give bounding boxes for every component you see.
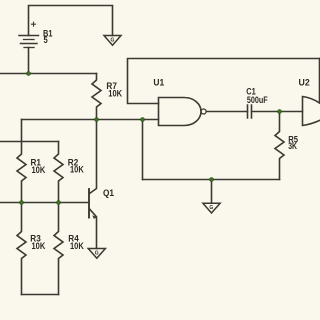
svg-text:G: G: [209, 205, 213, 211]
svg-text:10K: 10K: [108, 88, 122, 98]
svg-text:10K: 10K: [32, 165, 46, 175]
svg-text:U1: U1: [153, 78, 164, 88]
svg-text:10K: 10K: [70, 165, 84, 175]
svg-text:Q1: Q1: [103, 188, 114, 198]
svg-text:G: G: [111, 37, 115, 43]
svg-text:G: G: [95, 250, 99, 256]
svg-text:5: 5: [44, 35, 48, 45]
svg-text:500uF: 500uF: [247, 95, 268, 105]
svg-text:U2: U2: [299, 78, 310, 88]
svg-text:10K: 10K: [32, 241, 46, 251]
svg-text:10K: 10K: [70, 241, 84, 251]
svg-text:3K: 3K: [288, 141, 297, 151]
